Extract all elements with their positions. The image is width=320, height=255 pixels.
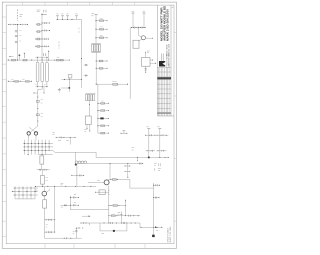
capacitor C12 ticks bbox=[134, 27, 142, 29]
wire J2 stem bbox=[88, 101, 91, 116]
capacitor C13 stub bbox=[153, 184, 160, 186]
parts table lower dark row bbox=[157, 113, 171, 114]
wire feedback drop bbox=[69, 137, 71, 144]
resistor R2b bbox=[15, 41, 18, 42]
labels lower-left row bbox=[11, 78, 25, 80]
resistor R14 bbox=[96, 67, 107, 69]
node dots rail F bbox=[96, 60, 108, 68]
resistor R24 bbox=[36, 100, 39, 102]
wire sense stub bbox=[120, 212, 122, 224]
resistor R1 bbox=[15, 31, 18, 32]
title block outline bbox=[157, 5, 174, 116]
terminal supply left bbox=[9, 56, 13, 57]
transistor Q6 bbox=[34, 132, 37, 135]
wire R28 stem bbox=[43, 208, 45, 238]
label gnd right bbox=[156, 229, 158, 231]
node dots rail H bbox=[97, 103, 109, 134]
wire stub y88 bbox=[61, 87, 69, 89]
wire bottom left run bbox=[44, 237, 81, 239]
resistor R33 rung bbox=[146, 150, 155, 152]
labels 1a 1b 1c bbox=[56, 13, 68, 15]
wire long left drop bbox=[129, 28, 131, 100]
wire crossover X bbox=[29, 127, 38, 134]
arrow test point bbox=[82, 215, 91, 217]
top mid rail bbox=[56, 18, 82, 20]
terminal 1c bbox=[66, 16, 69, 20]
capacitor C5 right stub bbox=[42, 38, 49, 40]
bias network mesh bbox=[23, 135, 53, 155]
resistor R26 bbox=[40, 156, 44, 164]
wire link cluster bbox=[139, 223, 141, 227]
wire Q3 emitter bbox=[68, 78, 70, 92]
driver ladder left leg bbox=[146, 127, 150, 158]
node dots lower-left row bbox=[8, 81, 32, 82]
wire stub below caps bbox=[44, 87, 45, 94]
resistor R29 rung bbox=[44, 219, 55, 221]
node dots rail B bbox=[35, 22, 50, 46]
diode D2 bbox=[98, 117, 109, 119]
label rail D bbox=[78, 28, 80, 34]
node dots mesh 2 bbox=[12, 187, 36, 195]
node dots bus top right bbox=[131, 27, 146, 28]
node dots chain bbox=[37, 97, 38, 122]
terminal 1d bbox=[75, 14, 78, 20]
resistor R2 bbox=[15, 36, 18, 37]
node dark gnd bbox=[113, 230, 115, 232]
wire dashed stub mid bbox=[58, 42, 60, 49]
resistor R3 bbox=[36, 23, 42, 25]
node dots rail E bbox=[95, 20, 107, 38]
border frame outer bbox=[2, 2, 176, 248]
terminal 1a bbox=[56, 16, 59, 20]
wire RL1 pins bbox=[87, 125, 91, 132]
wire low row bbox=[100, 222, 140, 224]
transistor Q1 bbox=[88, 179, 109, 185]
bias mesh 2 bbox=[12, 186, 38, 199]
rail H vertical bbox=[97, 84, 99, 133]
resistor R28 bbox=[43, 200, 47, 208]
node B top bbox=[41, 14, 42, 15]
wire leg2 bbox=[54, 186, 56, 232]
label feedback row bbox=[58, 140, 69, 142]
capacitor C15 stub bbox=[70, 195, 79, 199]
capacitor C16 stub bbox=[70, 202, 79, 206]
capacitor C5b right stub bbox=[42, 45, 49, 47]
resistor R36 bbox=[108, 205, 126, 207]
parts table grid horizontals bbox=[157, 68, 171, 113]
wire feedback row bbox=[56, 137, 76, 139]
rail supply horizontal bbox=[7, 59, 69, 61]
wire gnd right bbox=[153, 227, 155, 235]
driver ladder right leg bbox=[157, 127, 161, 158]
capacitor bank top wire bbox=[36, 53, 49, 62]
wire step right bbox=[130, 179, 154, 188]
terminal 1b bbox=[61, 16, 64, 20]
wire drive drop bbox=[109, 164, 111, 180]
sense row bbox=[37, 169, 50, 171]
capacitor C9 electrolytic bbox=[46, 62, 49, 82]
resistor R32 rung bbox=[156, 134, 168, 136]
resistor R35 bbox=[109, 179, 130, 181]
output bus bbox=[35, 185, 96, 187]
capacitor C14 stub bbox=[153, 197, 160, 199]
capacitor C3 right stub bbox=[42, 22, 50, 24]
capacitor C17 tick bbox=[33, 93, 37, 94]
zone ticks right edge bbox=[174, 33, 176, 221]
wire L1 top bbox=[74, 152, 76, 161]
wire to output bus bbox=[76, 175, 78, 186]
relay RL2 coil box bbox=[133, 40, 139, 48]
capacitor C1 row ticks bbox=[10, 24, 25, 26]
resistor R20 bbox=[98, 101, 109, 104]
wire mid vertical bbox=[108, 186, 110, 224]
resistor R27 bbox=[41, 170, 45, 187]
label bottom left bbox=[46, 224, 48, 227]
wire input row bbox=[9, 24, 29, 26]
wire L1 bottom bbox=[76, 164, 78, 175]
capacitor C18 chain bbox=[125, 164, 131, 178]
rail B vertical bbox=[41, 13, 43, 60]
node dots mid rail bbox=[57, 19, 73, 20]
capacitor C6 stub bbox=[24, 53, 25, 58]
node dark Q3 bbox=[68, 87, 70, 89]
node feed end bbox=[96, 84, 128, 85]
svg-text:MARK 2 BD S/N 21000: MARK 2 BD S/N 21000 bbox=[166, 9, 170, 41]
resistor R4 bbox=[36, 31, 42, 33]
relay RL1 box bbox=[85, 116, 91, 125]
label gnd bbox=[101, 233, 104, 235]
resistor R19 bbox=[26, 80, 30, 82]
zone ticks bottom edge bbox=[45, 244, 145, 249]
diode D4 wire bbox=[61, 204, 71, 207]
label RL1 bbox=[84, 129, 86, 131]
border frame inner bbox=[6, 5, 174, 244]
logo pilaster lines bbox=[160, 53, 162, 61]
label 1:2 bbox=[35, 190, 38, 192]
regulator U1 box bbox=[142, 52, 157, 73]
label R27 bbox=[46, 178, 49, 181]
label 31 bbox=[132, 148, 134, 151]
label micro bbox=[118, 213, 121, 215]
resistor R6 bbox=[36, 45, 42, 47]
capacitor C8 electrolytic bbox=[41, 62, 44, 82]
terminal 3b bbox=[143, 11, 146, 27]
chain mid vertical bbox=[38, 87, 42, 127]
wire right drop bbox=[153, 183, 155, 227]
resistor R10 bbox=[96, 18, 107, 21]
wire coil output run bbox=[87, 163, 143, 165]
resistor R5 bbox=[36, 38, 42, 40]
ground GND2 bbox=[152, 235, 155, 237]
node dots output bus bbox=[35, 186, 91, 187]
wire low row left ext bbox=[81, 222, 101, 225]
label polarity marks bbox=[35, 83, 45, 85]
capacitor C11 bridge bbox=[84, 75, 88, 77]
label Q1 bbox=[97, 179, 100, 181]
wire horizontal feed bbox=[96, 83, 127, 85]
svg-text:H H ELECTRONIC: H H ELECTRONIC bbox=[167, 53, 169, 67]
rail D vertical bbox=[81, 19, 83, 88]
parts table grid verticals bbox=[159, 68, 170, 116]
node L1 dark bbox=[75, 164, 77, 166]
logo bbox=[159, 61, 165, 67]
resistor R13 bbox=[96, 60, 107, 62]
resistor R21 bbox=[98, 110, 109, 112]
resistor R31 rung bbox=[145, 134, 155, 136]
terminal 2a bbox=[95, 13, 98, 15]
transistor Q3 box bbox=[62, 75, 82, 80]
label INPUT bbox=[20, 15, 23, 16]
capacitor bank bottom wire bbox=[36, 82, 49, 87]
capacitor C2 top bbox=[42, 10, 47, 15]
transistor Q4 bbox=[138, 28, 153, 42]
resistor R23 bbox=[98, 132, 109, 134]
capacitor C7 electrolytic bbox=[36, 62, 39, 82]
terminal 3a bbox=[132, 11, 135, 27]
resistor R25 bbox=[36, 114, 39, 116]
svg-text:SHEET 1 OF 1 REV: SHEET 1 OF 1 REV bbox=[170, 226, 172, 243]
connector J1 bbox=[91, 44, 100, 53]
label R1 R2 bbox=[19, 31, 21, 42]
transistor Q5 bbox=[27, 132, 30, 135]
connector J2 bbox=[85, 94, 95, 101]
capacitor C19 leg bbox=[73, 228, 83, 239]
wire input stem bbox=[17, 25, 19, 61]
resistor R18 bbox=[15, 80, 19, 82]
capacitor C10 bridge bbox=[84, 64, 88, 66]
resistor R30 rung bbox=[44, 231, 55, 233]
label 41 bbox=[61, 183, 64, 185]
node output junction dark bbox=[148, 156, 150, 158]
zone number speck bbox=[172, 6, 173, 8]
resistor R34 rung bbox=[156, 150, 166, 152]
ground GND1 bbox=[58, 88, 61, 92]
node dots output bus right bbox=[137, 157, 169, 158]
labels chain bbox=[41, 100, 43, 117]
diode D1 stub bbox=[19, 54, 21, 60]
bus top right bbox=[131, 27, 147, 29]
node dots supply rail bbox=[8, 60, 70, 61]
diode D3 bbox=[155, 226, 157, 228]
label O/P cluster bbox=[154, 163, 161, 171]
wire step bus bbox=[55, 152, 169, 157]
inductor L1 bbox=[75, 161, 87, 164]
resistor R11 bbox=[96, 27, 107, 30]
wire input dashed bbox=[17, 10, 19, 22]
rail E vertical bbox=[95, 14, 97, 43]
terminal stub mid bbox=[121, 131, 128, 134]
resistor R37 row bbox=[108, 215, 140, 217]
wire cap leg bbox=[125, 200, 126, 216]
wire mesh link bbox=[53, 150, 55, 152]
component box B1 bbox=[95, 190, 109, 195]
node dots rail D bbox=[81, 58, 82, 80]
zobel vertical bbox=[69, 196, 71, 210]
resistor R22 bbox=[98, 125, 109, 127]
wire R26 stem bbox=[41, 164, 43, 170]
wire damping row bbox=[71, 174, 84, 176]
wire bottom right row bbox=[140, 227, 163, 228]
node dots mesh bbox=[24, 143, 50, 155]
wire stub x48.7 bbox=[48, 51, 49, 60]
parts table dark band bbox=[157, 77, 171, 79]
node dots input row bbox=[8, 24, 28, 25]
label 2a bbox=[91, 14, 94, 16]
wire rail F down bbox=[95, 53, 97, 85]
zone ticks top edge bbox=[23, 2, 135, 5]
transistor Q7 bbox=[42, 186, 49, 199]
capacitor C4 right stub bbox=[42, 30, 50, 32]
label 4 bbox=[52, 133, 54, 135]
resistor R12 bbox=[96, 36, 107, 39]
wire zobel return bbox=[70, 209, 108, 211]
resistor R15 bbox=[12, 59, 16, 61]
wire gnd leg bbox=[100, 223, 127, 231]
zone ticks left edge bbox=[2, 17, 6, 237]
wire cap return bbox=[126, 223, 128, 231]
resistor R16 bbox=[23, 59, 27, 61]
wire stub below bus bbox=[136, 157, 139, 161]
fuse F1 bbox=[112, 81, 118, 85]
label +40V bbox=[37, 10, 41, 12]
resistor R17 bbox=[57, 57, 64, 61]
label U1 bbox=[147, 51, 150, 53]
row lower-left bbox=[8, 80, 32, 82]
